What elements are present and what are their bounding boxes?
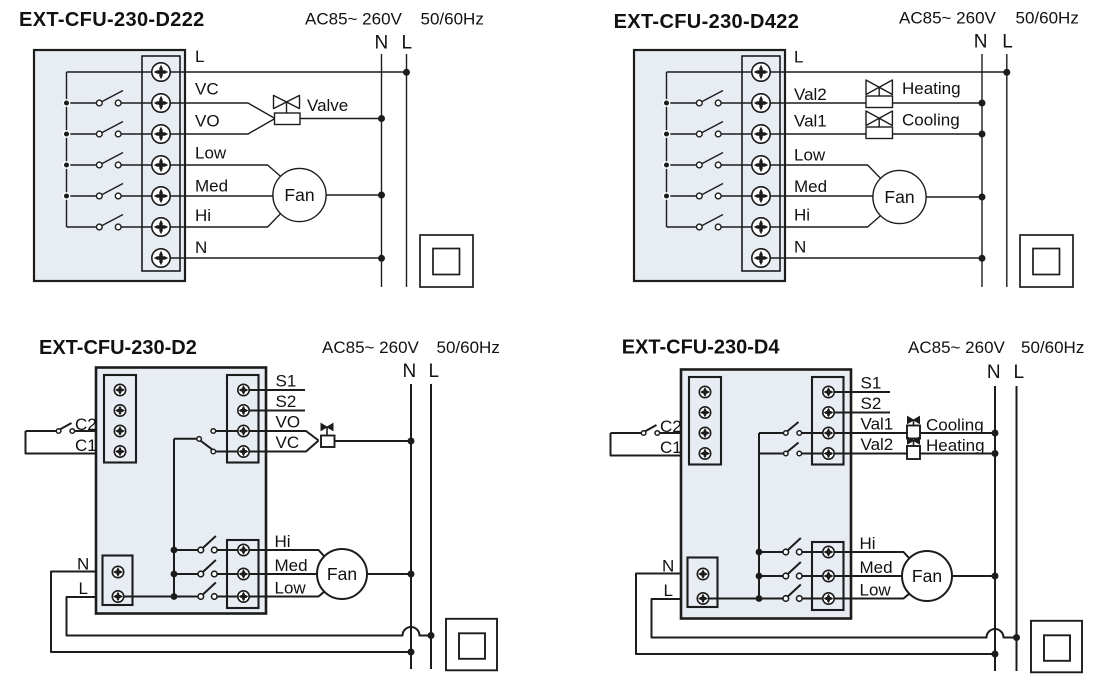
valve (motorised) symbol	[274, 95, 301, 124]
wire Val to Cooling valve	[761, 133, 866, 135]
screw terminal Val2	[752, 94, 770, 112]
wire fan to N	[952, 575, 995, 577]
svg-text:Med: Med	[860, 558, 893, 577]
wire L terminal to bus	[703, 598, 759, 600]
wire VO to valve	[161, 119, 275, 135]
class II insulation symbol	[446, 619, 497, 671]
screw terminal upper-left 2	[114, 405, 125, 416]
junction on bus	[756, 549, 763, 556]
screw terminal upper-left 4	[114, 446, 125, 457]
wire terminal S2 stub	[244, 410, 306, 412]
fan motor	[273, 168, 326, 221]
svg-text:L: L	[195, 47, 204, 66]
wire terminal L row	[67, 71, 407, 73]
wire Med to fan	[761, 195, 875, 197]
wire Val to Heating valve	[761, 102, 866, 104]
svg-text:Low: Low	[275, 579, 307, 598]
switch to terminal Val1	[667, 122, 762, 137]
switch fan Hi	[759, 538, 829, 555]
wire N mains vertical	[410, 384, 412, 669]
screw terminal Low	[238, 591, 249, 602]
svg-text:Hi: Hi	[794, 206, 810, 225]
wire N mains vertical	[994, 386, 996, 671]
wire Cooling valve to N	[893, 133, 983, 135]
wire bus vertical	[758, 433, 760, 599]
switch fan Med	[174, 560, 244, 577]
svg-text:L: L	[794, 48, 803, 67]
fan motor	[873, 170, 926, 223]
screw terminal N	[112, 566, 123, 577]
svg-text:Med: Med	[275, 556, 308, 575]
svg-text:Fan: Fan	[912, 566, 942, 586]
svg-text:N: N	[195, 238, 207, 257]
controller box D422	[634, 50, 785, 281]
svg-text:Hi: Hi	[275, 532, 291, 551]
svg-text:N: N	[987, 362, 1001, 383]
wire Med to fan	[244, 573, 319, 575]
junction N-N	[378, 255, 385, 262]
wire L mains vertical	[1006, 54, 1008, 287]
svg-text:VC: VC	[195, 80, 219, 99]
svg-text:C1: C1	[75, 436, 97, 455]
wire N mains vertical	[981, 54, 983, 287]
fan motor	[317, 549, 367, 599]
screw terminal upper-left 3	[114, 425, 125, 436]
switch fan Med	[759, 562, 829, 579]
wire L terminal to bus	[118, 596, 174, 598]
wire Low to fan	[761, 165, 881, 179]
svg-text:L: L	[402, 33, 413, 54]
svg-text:EXT-CFU-230-D4: EXT-CFU-230-D4	[622, 337, 781, 359]
terminal strip upper-left	[104, 375, 136, 463]
screw terminal upper-left 4	[699, 448, 710, 459]
svg-text:C1: C1	[660, 438, 682, 457]
junction on N	[992, 450, 999, 457]
svg-text:AC85~ 260V: AC85~ 260V	[908, 338, 1006, 357]
wire N mains vertical	[381, 54, 383, 287]
svg-text:L: L	[1002, 32, 1013, 53]
class II insulation symbol	[1031, 621, 1082, 673]
wire fan to N	[326, 194, 381, 196]
screw terminal VC	[152, 94, 170, 112]
screw terminal Low	[823, 593, 834, 604]
junction valve-N	[378, 115, 385, 122]
wire external C2 with switch	[75, 430, 96, 432]
screw terminal Med	[823, 570, 834, 581]
fan motor	[902, 551, 952, 601]
wire Cooling valve to N	[920, 432, 995, 434]
controller box D2	[96, 368, 266, 614]
junction on internal bus	[663, 131, 669, 137]
switch to terminal Med	[67, 184, 162, 199]
junction on bus	[756, 595, 763, 602]
screw terminal upper-right 1	[823, 386, 834, 397]
svg-text:EXT-CFU-230-D2: EXT-CFU-230-D2	[39, 337, 197, 359]
wire Heating valve to N	[920, 453, 995, 455]
valve Cooling small symbol	[907, 417, 920, 439]
wire bus to changeover pole	[174, 438, 197, 440]
svg-text:EXT-CFU-230-D222: EXT-CFU-230-D222	[19, 9, 205, 31]
svg-text:Fan: Fan	[284, 185, 314, 205]
screw terminal Hi	[752, 218, 770, 236]
terminal strip fan speeds	[812, 542, 844, 610]
junction on internal bus	[663, 100, 669, 106]
switch to terminal Low	[667, 153, 762, 168]
svg-text:50/60Hz: 50/60Hz	[437, 338, 500, 357]
svg-text:Heating: Heating	[902, 79, 961, 98]
switch to terminal Low	[67, 153, 162, 168]
terminal strip N L	[688, 558, 718, 608]
controller box D222	[34, 50, 185, 281]
svg-text:Low: Low	[860, 581, 892, 600]
wire VO to valve	[244, 431, 319, 441]
svg-text:Hi: Hi	[195, 206, 211, 225]
screw terminal Med	[752, 187, 770, 205]
wire terminal N row	[161, 257, 382, 259]
svg-text:50/60Hz: 50/60Hz	[1021, 338, 1084, 357]
wire Val1 to valve	[829, 432, 908, 434]
svg-text:Val2: Val2	[861, 435, 894, 454]
switch to terminal VO	[67, 122, 162, 137]
screw terminal N	[752, 249, 770, 267]
screw terminal upper-right 3	[823, 427, 834, 438]
svg-text:N: N	[375, 33, 389, 54]
svg-text:50/60Hz: 50/60Hz	[421, 10, 484, 29]
wire external C1 loop	[26, 431, 97, 454]
svg-text:L: L	[664, 581, 673, 600]
svg-text:N: N	[974, 32, 988, 53]
junction N loop	[408, 649, 415, 656]
junction on N	[979, 131, 986, 138]
junction valve-N	[408, 438, 415, 445]
screw terminal upper-left 1	[114, 384, 125, 395]
switch Val2	[784, 443, 829, 456]
wire internal bus	[666, 72, 668, 227]
wire L terminal loop to L mains	[652, 599, 1017, 638]
switch to terminal Hi	[67, 215, 162, 230]
svg-text:Cooling: Cooling	[926, 416, 984, 435]
svg-text:S2: S2	[276, 392, 297, 411]
junction on N	[992, 430, 999, 437]
terminal strip upper-right	[227, 375, 259, 463]
junction on bus	[171, 547, 178, 554]
junction on internal bus	[663, 193, 669, 199]
svg-text:L: L	[79, 579, 88, 598]
svg-text:VO: VO	[195, 112, 220, 131]
svg-text:S1: S1	[861, 374, 882, 393]
wire external C2 with switch	[660, 432, 681, 434]
svg-text:Fan: Fan	[884, 187, 914, 207]
wire bus vertical	[173, 439, 175, 597]
screw terminal N	[152, 249, 170, 267]
screw terminal upper-right 4	[238, 446, 249, 457]
svg-text:AC85~ 260V: AC85~ 260V	[899, 9, 997, 28]
junction on bus	[171, 593, 178, 600]
terminal strip upper-right	[812, 377, 844, 465]
wire Low to fan	[829, 594, 910, 599]
screw terminal L	[112, 591, 123, 602]
switch C2-C1 external	[26, 423, 75, 433]
junction N loop	[992, 651, 999, 658]
svg-text:Med: Med	[195, 176, 228, 195]
screw terminal Low	[752, 156, 770, 174]
terminal strip	[142, 56, 180, 271]
switch Val1	[784, 422, 829, 435]
switch C2-C1 external	[611, 425, 660, 435]
switch to terminal VC	[67, 91, 162, 106]
svg-text:VO: VO	[276, 413, 301, 432]
wire Low to fan	[161, 165, 281, 177]
screw terminal upper-right 4	[823, 448, 834, 459]
screw terminal upper-left 2	[699, 407, 710, 418]
screw terminal Med	[152, 187, 170, 205]
wire fan to N	[926, 196, 982, 198]
svg-text:Valve: Valve	[307, 96, 348, 115]
valve Heating symbol	[866, 80, 893, 108]
svg-text:Med: Med	[794, 177, 827, 196]
screw terminal Val1	[752, 125, 770, 143]
wire L terminal loop to L mains	[67, 597, 432, 636]
svg-text:C2: C2	[660, 417, 682, 436]
junction on internal bus	[63, 162, 69, 168]
wire Med to fan	[829, 575, 904, 577]
svg-text:Val2: Val2	[794, 85, 827, 104]
screw terminal Med	[238, 568, 249, 579]
switch to terminal Med	[667, 184, 762, 199]
screw terminal upper-right 2	[823, 407, 834, 418]
junction on internal bus	[63, 193, 69, 199]
junction L wire to L mains	[1003, 69, 1010, 76]
svg-text:VC: VC	[276, 433, 300, 452]
valve Heating small symbol	[907, 437, 920, 459]
svg-text:AC85~ 260V: AC85~ 260V	[305, 10, 403, 29]
class II insulation symbol	[1020, 235, 1073, 287]
svg-text:Hi: Hi	[860, 534, 876, 553]
svg-text:L: L	[429, 361, 440, 382]
wire VC to valve	[161, 103, 275, 119]
junction L loop	[1013, 634, 1020, 641]
wire bus to Val1 switch	[759, 432, 783, 434]
junction fan-N	[979, 194, 986, 201]
svg-text:N: N	[794, 238, 806, 257]
wire valve to N	[300, 118, 382, 120]
wire N terminal loop to N mains	[636, 574, 995, 655]
wire Hi to fan	[829, 552, 910, 558]
wire Val2 to valve	[829, 453, 908, 455]
switch fan Hi	[174, 536, 244, 553]
svg-text:Low: Low	[195, 144, 227, 163]
switch to terminal Val2	[667, 91, 762, 106]
wire Med to fan	[161, 195, 275, 197]
svg-text:AC85~ 260V: AC85~ 260V	[322, 338, 420, 357]
screw terminal L	[752, 63, 770, 81]
screw terminal Hi	[823, 546, 834, 557]
screw terminal upper-left 1	[699, 386, 710, 397]
wire L mains vertical	[1016, 386, 1018, 671]
junction fan-N	[378, 192, 385, 199]
svg-text:Fan: Fan	[327, 564, 357, 584]
class II insulation symbol	[420, 235, 473, 287]
junction on internal bus	[663, 162, 669, 168]
junction on internal bus	[63, 100, 69, 106]
controller box D4	[681, 370, 851, 619]
wire Low to fan	[244, 592, 325, 597]
switch to terminal Hi	[667, 215, 762, 230]
terminal strip fan speeds	[227, 540, 259, 608]
screw terminal upper-left 3	[699, 427, 710, 438]
wire Hi to fan	[161, 214, 281, 228]
svg-text:Val1: Val1	[861, 415, 894, 434]
wire terminal L row	[667, 71, 1007, 73]
junction L loop	[428, 632, 435, 639]
wire fan to N	[367, 573, 411, 575]
screw terminal Hi	[238, 544, 249, 555]
svg-text:L: L	[1014, 362, 1025, 383]
wire valve to N	[335, 440, 412, 442]
junction N-N	[979, 255, 986, 262]
screw terminal upper-right 2	[238, 405, 249, 416]
svg-text:S2: S2	[861, 394, 882, 413]
screw terminal Low	[152, 156, 170, 174]
junction on bus	[756, 573, 763, 580]
screw terminal upper-right 1	[238, 384, 249, 395]
screw terminal L	[697, 593, 708, 604]
wire VO contact to terminal	[216, 430, 244, 432]
svg-text:N: N	[403, 361, 417, 382]
screw terminal L	[152, 63, 170, 81]
wire Hi to fan	[761, 216, 881, 228]
wire internal bus	[66, 72, 68, 227]
junction on N	[979, 100, 986, 107]
wire terminal S1 stub	[829, 391, 891, 393]
changeover switch VO/VC	[197, 429, 216, 454]
junction L wire to L mains	[403, 69, 410, 76]
screw terminal Hi	[152, 218, 170, 236]
valve small symbol	[321, 424, 335, 448]
screw terminal N	[697, 568, 708, 579]
screw terminal upper-right 3	[238, 425, 249, 436]
wire Heating valve to N	[893, 102, 983, 104]
wire terminal S2 stub	[829, 412, 891, 414]
junction fan-N	[408, 571, 415, 578]
svg-text:C2: C2	[75, 415, 97, 434]
switch fan Low	[759, 585, 829, 602]
svg-text:S1: S1	[276, 372, 297, 391]
wire bus to Val2 switch	[759, 453, 783, 455]
wire L mains vertical	[430, 384, 432, 669]
svg-text:EXT-CFU-230-D422: EXT-CFU-230-D422	[614, 11, 800, 33]
svg-text:50/60Hz: 50/60Hz	[1016, 9, 1079, 28]
wire VC contact to terminal	[216, 451, 244, 453]
wire L mains vertical	[406, 54, 408, 287]
wire terminal N row	[761, 257, 982, 259]
junction on internal bus	[63, 131, 69, 137]
wire Hi to fan	[244, 550, 325, 556]
wire terminal S1 stub	[244, 389, 306, 391]
terminal strip	[742, 56, 780, 271]
junction on bus	[171, 571, 178, 578]
wire N terminal loop to N mains	[51, 572, 411, 653]
switch fan Low	[174, 583, 244, 600]
svg-text:Val1: Val1	[794, 112, 827, 131]
wire external C1 loop	[611, 433, 682, 456]
valve Cooling symbol	[866, 111, 893, 139]
svg-text:Low: Low	[794, 146, 826, 165]
terminal strip upper-left	[689, 377, 721, 465]
svg-text:Cooling: Cooling	[902, 111, 960, 130]
junction fan-N	[992, 573, 999, 580]
screw terminal VO	[152, 125, 170, 143]
svg-text:Heating: Heating	[926, 436, 985, 455]
terminal strip N L	[103, 556, 133, 606]
wire VC to valve	[244, 441, 319, 452]
